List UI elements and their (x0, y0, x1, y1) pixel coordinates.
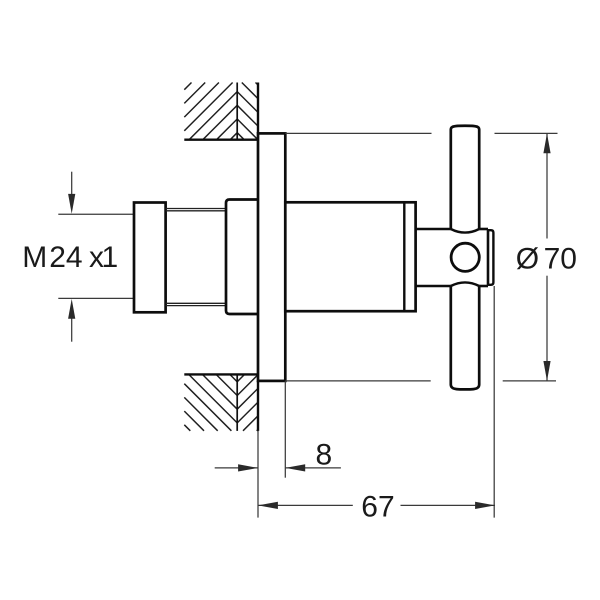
handle bar vertical (451, 126, 479, 390)
M24 extension line upper (58, 213, 134, 215)
hub end cap (488, 230, 493, 285)
svg-text:67: 67 (361, 490, 394, 523)
wall face below plate (257, 381, 259, 431)
cross bore circle (451, 243, 479, 271)
valve body cap edge (403, 202, 405, 311)
nut end cap (rect A) (134, 203, 166, 313)
dimension 8 arrows (215, 464, 341, 471)
svg-text:70: 70 (544, 242, 577, 275)
svg-text:8: 8 (316, 438, 333, 471)
dia70 extension line bottom (285, 380, 556, 382)
bar-hub fillet top (451, 229, 479, 233)
wall hole edge top (184, 138, 258, 140)
M24 extension line lower (58, 297, 134, 299)
dia70 dimension line with arrows (543, 133, 550, 381)
hub face extension line down (493, 286, 495, 518)
thread lines M24 section (166, 209, 226, 306)
svg-text:M: M (22, 241, 47, 274)
handle hub outline (416, 229, 488, 286)
svg-text:Ø: Ø (516, 242, 539, 275)
plate right extension line down (284, 381, 286, 478)
wall hatch bottom block (chevron) (184, 374, 258, 430)
dimension 67 line and arrows (258, 502, 495, 509)
plate left extension line down (257, 431, 259, 518)
wall hole edge bottom (184, 373, 258, 375)
bar-hub fillet bottom (451, 282, 479, 286)
mounting flange (rect B) (226, 200, 258, 315)
valve body cylinder (285, 202, 415, 311)
M24 arrow up (68, 299, 75, 342)
wall hatch top-left zone and top-right zone (chevron) (184, 83, 258, 140)
wall plate escutcheon (258, 133, 285, 381)
wall hatch apex line bottom (236, 374, 238, 431)
svg-text:24: 24 (49, 241, 82, 274)
M24 arrow down (68, 172, 75, 214)
wall face above plate (257, 83, 259, 134)
wall hatch apex line top (236, 83, 238, 140)
svg-text:x1: x1 (89, 241, 118, 274)
dia70 extension line top (285, 132, 557, 134)
